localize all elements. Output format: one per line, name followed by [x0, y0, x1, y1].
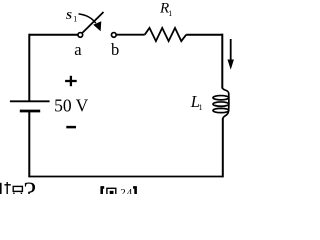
svg-text:S: S	[66, 10, 72, 22]
caption: Chinese char box (tu, cut off)	[107, 188, 116, 195]
switch S1 terminal circle b	[111, 33, 116, 38]
resistor R1 zigzag	[145, 28, 187, 41]
wire: switch terminal b to resistor	[117, 34, 145, 36]
wire: top-left horizontal from corner to switch terminal a	[29, 34, 77, 36]
svg-text:1: 1	[199, 103, 203, 112]
inductor L1 loop 1	[213, 96, 229, 100]
inductor L1 loop 3	[213, 108, 229, 112]
inductor L1 loop 2	[213, 102, 229, 106]
wire: right vertical lower (inductor to bottom corner)	[222, 119, 224, 178]
battery short plate (negative)	[20, 110, 40, 113]
wire: resistor to top-right corner	[186, 34, 222, 36]
wire: left vertical upper (corner to battery top plate)	[28, 34, 30, 102]
svg-text:a: a	[74, 40, 82, 59]
svg-text:1: 1	[73, 15, 77, 24]
svg-text:?: ?	[23, 176, 36, 194]
inductor L1 exit hook to bottom wire	[223, 112, 229, 120]
label - polarity	[66, 126, 76, 129]
label + polarity	[65, 76, 77, 86]
switch S1 terminal circle a	[78, 33, 83, 38]
battery long plate (positive)	[10, 100, 50, 102]
cut-off text: Chinese char (hand radical + box)	[4, 182, 22, 194]
cut-off text fragment: stroke of char at left edge	[0, 183, 2, 194]
caption: right black bracket (cut off)	[133, 187, 136, 194]
svg-text:50 V: 50 V	[54, 95, 89, 115]
current arrow (down) right of top-right corner	[230, 39, 232, 61]
wire: right vertical upper (corner to inductor)	[221, 34, 223, 89]
switch S1 closing arc with arrowhead	[79, 14, 96, 23]
inductor L1 entry hook from top wire	[222, 88, 228, 94]
svg-text:b: b	[111, 40, 119, 59]
caption: left black bracket (cut off)	[102, 187, 105, 194]
wire: left vertical lower (battery bottom plate to bottom corner)	[28, 111, 30, 177]
wire: bottom horizontal	[28, 176, 222, 178]
svg-text:1: 1	[168, 9, 172, 18]
svg-text:24: 24	[120, 187, 133, 194]
switch S1 lever blade	[82, 12, 103, 33]
inductor L1 right spine	[228, 93, 230, 111]
